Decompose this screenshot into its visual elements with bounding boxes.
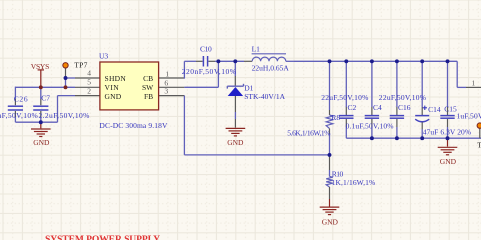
svg-text:1: 1 bbox=[472, 79, 476, 88]
svg-text:VIN: VIN bbox=[105, 83, 120, 92]
svg-text:TP7: TP7 bbox=[74, 61, 87, 70]
svg-text:STK-40V/1A: STK-40V/1A bbox=[244, 92, 285, 101]
svg-text:TP8: TP8 bbox=[477, 140, 481, 149]
svg-text:C15: C15 bbox=[444, 104, 457, 113]
svg-text:VSYS: VSYS bbox=[31, 62, 50, 71]
svg-text:GND: GND bbox=[440, 157, 457, 166]
svg-text:47uF 6.3V 20%: 47uF 6.3V 20% bbox=[423, 128, 471, 137]
svg-text:U3: U3 bbox=[99, 51, 108, 60]
svg-text:22uF,50V,10%: 22uF,50V,10% bbox=[321, 93, 368, 102]
svg-text:C14: C14 bbox=[428, 105, 441, 114]
svg-text:L1: L1 bbox=[252, 45, 261, 54]
svg-text:2.2uF,50V,10%: 2.2uF,50V,10% bbox=[0, 111, 38, 120]
svg-text:C16: C16 bbox=[398, 103, 411, 112]
svg-text:1uF,50V,10%: 1uF,50V,10% bbox=[457, 112, 481, 121]
svg-text:2.2uF,50V,10%: 2.2uF,50V,10% bbox=[39, 111, 90, 120]
svg-text:C4: C4 bbox=[373, 103, 382, 112]
svg-text:4: 4 bbox=[87, 69, 91, 78]
svg-text:220nF,50V,10%: 220nF,50V,10% bbox=[182, 67, 236, 76]
svg-text:3: 3 bbox=[164, 87, 168, 96]
svg-text:22uH,0.65A: 22uH,0.65A bbox=[252, 64, 290, 73]
svg-text:GND: GND bbox=[227, 138, 244, 147]
svg-text:DC-DC 300ma 9.18V: DC-DC 300ma 9.18V bbox=[99, 121, 168, 130]
svg-text:C7: C7 bbox=[41, 93, 50, 102]
svg-text:0.1uF,50V,10%: 0.1uF,50V,10% bbox=[346, 122, 394, 131]
svg-text:5.6K,1/16W,1%: 5.6K,1/16W,1% bbox=[287, 129, 330, 138]
svg-text:2: 2 bbox=[87, 86, 91, 95]
svg-text:GND: GND bbox=[322, 218, 339, 227]
svg-text:1K,1/16W,1%: 1K,1/16W,1% bbox=[332, 178, 376, 187]
svg-text:SHDN: SHDN bbox=[105, 74, 127, 83]
svg-text:22uF,50V,10%: 22uF,50V,10% bbox=[379, 93, 426, 102]
svg-text:CB: CB bbox=[143, 74, 153, 83]
svg-text:1: 1 bbox=[165, 70, 169, 79]
svg-text:C26: C26 bbox=[14, 95, 28, 104]
svg-text:SW: SW bbox=[142, 83, 154, 92]
svg-text:5: 5 bbox=[87, 77, 91, 86]
svg-text:GND: GND bbox=[33, 138, 50, 147]
svg-text:SYSTEM POWER SUPPLY: SYSTEM POWER SUPPLY bbox=[45, 234, 160, 240]
svg-text:FB: FB bbox=[144, 92, 153, 101]
svg-text:C10: C10 bbox=[200, 45, 212, 54]
svg-text:C2: C2 bbox=[348, 103, 357, 112]
svg-text:R8: R8 bbox=[331, 113, 340, 122]
svg-text:GND: GND bbox=[105, 92, 122, 101]
